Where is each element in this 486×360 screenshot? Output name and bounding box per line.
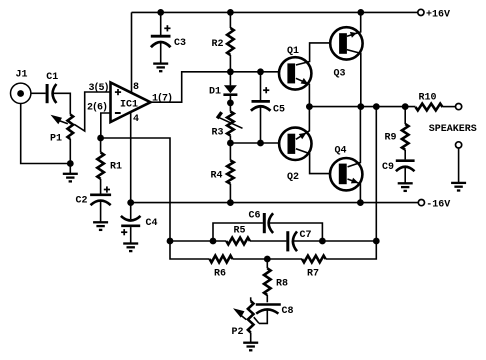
- svg-text:R7: R7: [307, 269, 319, 280]
- svg-text:Q4: Q4: [335, 146, 347, 157]
- wire R9 to C9: [404, 150, 406, 160]
- wire R8 to C8: [266, 295, 268, 302]
- svg-text:R8: R8: [276, 279, 288, 290]
- Q4 arrow: [351, 178, 359, 184]
- wire R1 top stem: [100, 138, 102, 153]
- wire C5 top stem: [260, 72, 262, 100]
- trimmer R3: [227, 112, 234, 136]
- junction Q1/Q2 emitters: [306, 103, 313, 110]
- junction C5 top on output node: [257, 68, 264, 75]
- svg-text:R5: R5: [234, 226, 246, 237]
- wire -16V rail: [131, 202, 419, 204]
- junction inverting input node: [97, 135, 104, 142]
- diode D1: [223, 85, 237, 95]
- wire R2 top stem: [229, 12, 231, 28]
- wire D1 top stem: [229, 72, 231, 86]
- ground under P2: [243, 343, 258, 351]
- svg-text:C7: C7: [300, 230, 312, 241]
- junction R4 on -rail: [227, 199, 234, 206]
- svg-text:P1: P1: [50, 133, 62, 144]
- wire rail to C3: [160, 12, 162, 35]
- wire IC1 pin2: [101, 113, 110, 138]
- wire R2 bottom stem: [229, 55, 231, 72]
- svg-text:C9: C9: [382, 162, 394, 173]
- junction R3/R4 bias node: [227, 140, 234, 147]
- resistor R10: [416, 104, 443, 111]
- wire Q3 to +rail: [347, 12, 361, 36]
- ground under C3: [153, 64, 168, 72]
- svg-text:R2: R2: [212, 39, 224, 50]
- wire C4 to ground: [130, 227, 132, 243]
- capacitor C6: [264, 213, 273, 233]
- wire +16V rail: [132, 11, 418, 13]
- wire R10 to terminal: [443, 106, 456, 108]
- wire J1 to C1: [31, 92, 46, 94]
- C2 plus mark: [104, 186, 110, 192]
- terminal speaker +: [456, 104, 462, 110]
- Q1 emitter arrow: [301, 78, 309, 85]
- capacitor C8: [256, 305, 281, 314]
- wire C6 branch right: [269, 223, 323, 241]
- wire C4 top stem: [130, 203, 132, 219]
- IC1 minus mark: [115, 112, 121, 114]
- wire C8 to P2 wiper: [259, 309, 267, 324]
- wire IC1 pin4 to -rail: [130, 112, 132, 203]
- wire output rail: [309, 106, 415, 108]
- junction Q3/Q4 on output rail: [357, 103, 364, 110]
- wire C3 to ground: [160, 42, 162, 64]
- wire R9 top stem: [404, 107, 406, 124]
- transistor Q2: [279, 128, 311, 160]
- wire P1 wiper to IC1 pin3: [74, 92, 110, 131]
- terminal speaker -: [456, 142, 462, 148]
- P1 arrow: [51, 115, 68, 124]
- wire Q2 emitter: [296, 107, 310, 140]
- svg-text:-16V: -16V: [426, 199, 450, 210]
- wire Q3 emitter to output rail: [347, 50, 361, 107]
- wire IC1 output 1(7): [151, 72, 279, 102]
- svg-text:R1: R1: [110, 162, 122, 173]
- svg-text:C8: C8: [282, 306, 294, 317]
- transistor Q3: [330, 27, 362, 59]
- wire R1 to C2: [100, 179, 102, 194]
- ground under C4: [123, 244, 138, 252]
- junction feedback left node: [167, 238, 174, 245]
- junction feedback tap on output rail: [373, 103, 380, 110]
- svg-text:+16V: +16V: [426, 9, 450, 20]
- wire to ground: [69, 164, 71, 174]
- wire Q1 emitter: [296, 78, 310, 106]
- wire C1 to P1 top: [53, 93, 70, 114]
- svg-text:C2: C2: [76, 196, 88, 207]
- svg-text:J1: J1: [16, 69, 28, 80]
- P2 arrow: [233, 308, 246, 319]
- wire Q4 to -rail: [348, 179, 361, 203]
- transistor Q1: [279, 57, 311, 89]
- svg-text:8: 8: [133, 82, 139, 93]
- ground under C2: [93, 222, 108, 230]
- potentiometer P2: [248, 301, 254, 333]
- junction C4 on -rail: [127, 199, 134, 206]
- resistor R7: [302, 256, 326, 263]
- capacitor C2: [90, 195, 111, 205]
- P2 wiper diagonal: [254, 317, 259, 323]
- capacitor C5: [251, 101, 271, 110]
- IC1 plus mark: [115, 89, 121, 95]
- junction C6/C7 join: [319, 238, 326, 245]
- resistor R6: [210, 256, 233, 263]
- svg-text:R6: R6: [214, 269, 226, 280]
- resistor R8: [264, 268, 271, 295]
- junction C6 tap: [210, 238, 217, 245]
- svg-text:2(6): 2(6): [87, 102, 107, 114]
- wire C2 to ground: [100, 200, 102, 223]
- capacitor C3: [151, 36, 171, 47]
- svg-text:R9: R9: [385, 133, 397, 144]
- junction R9 on output rail: [402, 103, 409, 110]
- junction feedback mid right: [373, 238, 380, 245]
- wire C5 bottom stem: [260, 107, 262, 144]
- wire Q2 collector to Q4 base: [296, 149, 330, 174]
- junction Q4 on -rail: [357, 199, 364, 206]
- wire R3 top stem: [229, 103, 231, 112]
- resistor R4: [227, 160, 234, 183]
- junction R8 tap: [264, 256, 271, 263]
- wire R6 to R7: [232, 258, 302, 260]
- svg-text:R10: R10: [419, 93, 437, 104]
- resistor R2: [227, 28, 234, 55]
- wire R5 to C7: [250, 240, 287, 242]
- junction output node at R2/D1: [227, 68, 234, 75]
- svg-text:Q1: Q1: [287, 46, 299, 57]
- wire Q4 emitter to output rail: [348, 107, 361, 167]
- resistor R5: [226, 238, 250, 245]
- Q2 emitter arrow: [299, 133, 307, 140]
- capacitor C4: [121, 216, 141, 226]
- wire R4 top stem: [229, 143, 231, 160]
- ground under P1: [63, 174, 78, 182]
- svg-text:C1: C1: [46, 72, 58, 83]
- svg-text:Q2: Q2: [287, 172, 299, 183]
- svg-text:3(5): 3(5): [89, 82, 109, 94]
- potentiometer P1: [68, 115, 74, 140]
- wire C9 to ground: [404, 166, 406, 183]
- capacitor C7: [288, 231, 297, 251]
- wire speaker - to ground: [458, 148, 460, 183]
- svg-text:C5: C5: [273, 105, 285, 116]
- input jack J1: [11, 83, 31, 103]
- ground under C9: [398, 183, 413, 191]
- svg-text:C6: C6: [249, 211, 261, 222]
- wire IC1 pin8 to +rail: [131, 12, 133, 93]
- terminal +16V: [418, 9, 424, 15]
- svg-text:D1: D1: [209, 86, 221, 97]
- wire Q1 collector to Q3 base: [296, 43, 330, 65]
- junction C5 bottom on bias node: [257, 140, 264, 147]
- svg-text:R4: R4: [211, 171, 223, 182]
- wire J1 ground run: [21, 104, 71, 164]
- junction C3 on +rail: [157, 9, 164, 16]
- junction R2 on +rail: [227, 9, 234, 16]
- wire C6 branch left: [213, 223, 263, 241]
- junction D1/R3: [227, 100, 234, 107]
- op-amp IC1: [111, 83, 151, 123]
- terminal -16V: [418, 200, 424, 206]
- wire C7 to right node: [293, 240, 376, 242]
- ground under speaker terminal: [451, 183, 466, 191]
- C3 plus mark: [164, 25, 170, 31]
- wire left node to R5: [170, 240, 226, 242]
- wire D1 bottom stem: [229, 96, 231, 103]
- svg-text:C4: C4: [146, 218, 158, 229]
- svg-text:SPEAKERS: SPEAKERS: [429, 124, 477, 135]
- Q3 arrow: [350, 32, 357, 38]
- svg-text:4: 4: [133, 114, 139, 125]
- wire bias node to Q2 base: [230, 142, 278, 144]
- svg-text:R3: R3: [212, 128, 224, 139]
- capacitor C1: [47, 84, 56, 103]
- junction P1/J1 ground: [67, 160, 74, 167]
- wire P2 to ground: [250, 333, 252, 343]
- svg-text:P2: P2: [232, 327, 244, 338]
- resistor R1: [97, 153, 104, 179]
- svg-text:Q3: Q3: [334, 69, 346, 80]
- transistor Q4: [330, 158, 362, 190]
- wire R8 top stem: [266, 259, 268, 268]
- R3 wiper arrow: [217, 112, 242, 128]
- wire feedback left run: [101, 138, 210, 259]
- resistor R9: [402, 124, 409, 150]
- capacitor C9: [396, 161, 415, 172]
- junction Q3 on +rail: [357, 9, 364, 16]
- wire R3 bottom stem: [229, 136, 231, 144]
- svg-text:C3: C3: [174, 38, 186, 49]
- wire R4 bottom stem: [229, 184, 231, 203]
- wire feedback right run: [326, 107, 377, 259]
- C4 plus mark: [121, 229, 127, 235]
- svg-text:IC1: IC1: [120, 100, 138, 111]
- C5 plus mark: [263, 87, 269, 93]
- wire P1 bottom: [69, 139, 71, 164]
